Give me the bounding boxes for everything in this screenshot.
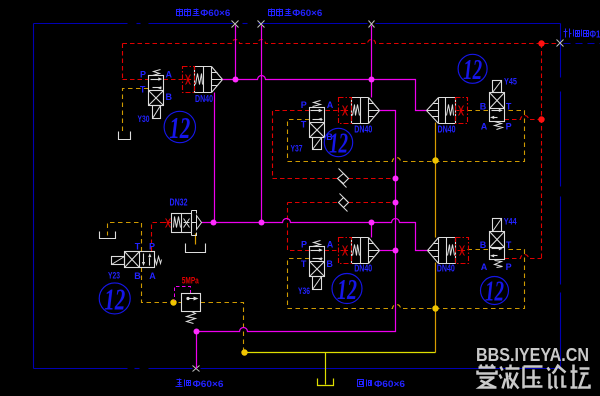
wire red pilot top horizontal: [123, 40, 557, 44]
svg-text:B: B: [166, 92, 173, 102]
svg-text:DN40: DN40: [354, 263, 372, 275]
wire relief valve remote pilot: [175, 287, 191, 301]
node main junction pilot CK2: [393, 200, 399, 206]
node main junction B2: [259, 220, 265, 226]
label oil inlet (jin you phi60x6): [177, 379, 182, 381]
callout circle 12 (Y23 group): [99, 283, 130, 314]
node main junction U4 out: [393, 248, 399, 254]
watermark ai ye ya lun tan: [479, 366, 496, 369]
svg-text:Y30: Y30: [138, 114, 150, 124]
svg-text:P: P: [301, 239, 307, 249]
valve Y37 body: [310, 108, 325, 138]
callout circle 12 (Y45 group): [458, 54, 487, 83]
wire drain Y23 B to relief valve: [142, 268, 182, 303]
relief valve RV1 spring: [187, 312, 196, 324]
wire red Y37 P branch: [273, 111, 310, 179]
svg-text:T: T: [506, 240, 512, 250]
node drain junction return corner: [241, 349, 247, 355]
tank symbol main return: [318, 379, 334, 386]
tank symbol DN32 drain: [186, 244, 206, 253]
svg-text:Φ60×6: Φ60×6: [292, 8, 322, 18]
svg-text:Y44: Y44: [504, 217, 518, 227]
cartridge valve U4 DN40 (center-bottom): [352, 237, 369, 239]
drawing frame top border: [34, 23, 128, 25]
wire red check valve CK1 line right: [349, 178, 397, 180]
wire main inlet riser: [196, 332, 198, 369]
node drain junction U5: [432, 305, 438, 311]
callout circle 12 (Y44 group): [481, 277, 509, 305]
wire red right column vertical: [541, 44, 543, 259]
wire main upper header: [223, 76, 427, 111]
node red junction Y45 P: [538, 116, 544, 122]
drill crossing mark X5 inlet: [193, 366, 200, 372]
drawing frame left border: [33, 24, 35, 369]
node main junction B1: [211, 220, 217, 226]
wire drain Y37 T loop to Y45 T: [288, 111, 525, 162]
wire red Y30 A to cartridge U1 pilot: [164, 79, 183, 81]
wire main middle header: [202, 219, 428, 251]
svg-text:A: A: [481, 122, 488, 132]
svg-text:B: B: [326, 259, 333, 269]
wire red check valve CK2 line right: [349, 202, 397, 204]
wire drain cartridge U5 pilot to Y44 B: [468, 249, 490, 251]
wire red pilot drop to Y30 P: [122, 44, 124, 80]
wire main vertical from X1: [235, 26, 237, 80]
node main junction inlet corner: [194, 329, 200, 335]
wire red check valve CK2 line left: [288, 202, 339, 204]
svg-text:BBS.IYEYA.CN: BBS.IYEYA.CN: [476, 345, 589, 365]
node main junction A2: [369, 77, 375, 83]
svg-text:12: 12: [463, 55, 482, 86]
svg-text:P: P: [506, 262, 512, 272]
node drain junction U3: [432, 157, 438, 163]
blue dashed stub beyond right border: [564, 43, 600, 45]
tank symbol Y30 drain: [119, 132, 131, 140]
svg-text:DN32: DN32: [170, 196, 188, 208]
valve Y44 body: [490, 232, 505, 260]
cartridge valve U2 DN40 (center-top): [352, 97, 369, 99]
svg-text:12: 12: [169, 110, 190, 145]
svg-text:Y37: Y37: [291, 144, 303, 154]
wire red Y36 A to cartridge U4 pilot: [325, 250, 339, 252]
wire red Y44 P line: [505, 255, 542, 259]
valve Y23 body: [125, 252, 155, 268]
drill crossing mark X3: [369, 21, 375, 28]
svg-text:5MPa: 5MPa: [182, 276, 200, 286]
wire main cartridge U4 out: [380, 250, 396, 252]
cartridge valve U1 DN40 (top-left): [195, 66, 212, 68]
wire red Y36 P branch: [288, 203, 310, 251]
wire main cartridge U2 out down to B header: [197, 111, 396, 332]
svg-text:Y23: Y23: [108, 271, 120, 281]
svg-text:B: B: [480, 101, 487, 111]
node main junction A1: [233, 77, 239, 83]
valve Y30 body: [149, 76, 164, 106]
callout circle 12 (Y37 group): [324, 128, 352, 156]
svg-text:T: T: [506, 101, 512, 111]
svg-text:Φ60×6: Φ60×6: [200, 8, 230, 18]
svg-text:12: 12: [329, 129, 348, 160]
wire drain relief valve to return: [201, 303, 244, 353]
wire main stub to cartridge U4 top: [371, 223, 373, 238]
check valve CK1: [338, 174, 349, 184]
callout circle 12 (Y30 group): [164, 111, 195, 142]
svg-text:12: 12: [104, 282, 125, 317]
tank symbol Y23 drain: [100, 232, 116, 239]
wire drain cartridge U3 pilot to Y45 B: [468, 110, 490, 112]
svg-text:T: T: [301, 259, 307, 269]
wire red Y37 A to cartridge U2 pilot: [326, 110, 340, 112]
cartridge valve U5 DN40 (bottom-right): [439, 237, 456, 239]
label oil return (hui you phi60x6): [358, 380, 364, 387]
wire orange DN32 drain stub: [195, 234, 197, 245]
wire red Y45 P line: [505, 116, 542, 120]
drawing frame bottom border: [34, 368, 128, 370]
callout circle 12 (Y36 group): [332, 274, 362, 304]
drawing frame right border: [560, 24, 562, 78]
wire red Y23 P up to DN32 pilot: [152, 223, 164, 252]
label drill passage 1 (chuan kong dao phi60x6): [177, 10, 183, 16]
svg-text:Φ1: Φ1: [590, 30, 600, 41]
svg-text:A: A: [327, 239, 334, 249]
wire yellow return line: [245, 352, 436, 354]
check valve CK2: [339, 198, 349, 208]
svg-text:A: A: [481, 262, 488, 272]
svg-text:Φ60×6: Φ60×6: [193, 379, 224, 389]
svg-text:P: P: [301, 100, 307, 110]
svg-text:T: T: [140, 84, 146, 94]
wire main cartridge U1 bottom: [214, 93, 216, 223]
svg-text:T: T: [301, 120, 307, 130]
svg-text:Φ60×6: Φ60×6: [374, 379, 405, 389]
svg-text:A: A: [149, 271, 156, 281]
svg-text:Y36: Y36: [298, 286, 310, 296]
svg-text:P: P: [506, 122, 512, 132]
svg-text:12: 12: [337, 274, 357, 306]
node main junction B3: [369, 220, 375, 226]
valve Y36 body: [310, 247, 325, 277]
node main junction pilot CK1: [393, 176, 399, 182]
valve Y45 body: [490, 93, 505, 122]
svg-text:12: 12: [485, 277, 504, 308]
wire yellow tank stub: [325, 353, 327, 385]
wire drain Y23 T to tank: [108, 223, 142, 252]
wire main vertical from X3 into cartridge U2: [371, 26, 373, 98]
svg-text:Y45: Y45: [504, 77, 517, 87]
svg-text:DN40: DN40: [195, 93, 213, 105]
drill crossing mark X4 right border: [557, 40, 564, 47]
drill crossing mark X2: [258, 21, 265, 28]
wire drain Y36 T loop to Y44 T: [288, 250, 525, 309]
svg-text:DN40: DN40: [437, 263, 455, 275]
label drill passage 2 (chuan kong dao phi60x6): [269, 10, 275, 16]
wire red check valve CK1 line left: [273, 178, 338, 180]
svg-text:DN40: DN40: [438, 124, 456, 136]
svg-text:P: P: [140, 69, 146, 79]
wire drain Y30 T to tank: [123, 89, 149, 135]
svg-text:T: T: [135, 242, 141, 252]
svg-text:B: B: [480, 240, 487, 250]
cartridge valve U3 DN40 (top-right): [439, 97, 456, 99]
label external control oil (wai kong you phi10x6): [565, 29, 567, 38]
svg-text:P: P: [149, 242, 155, 252]
svg-text:A: A: [327, 100, 334, 110]
wire main vertical from X2: [261, 26, 263, 223]
svg-text:A: A: [166, 69, 173, 79]
wire orange cartridge U3 bottom to U5 top: [435, 123, 437, 238]
node red junction top right: [538, 40, 544, 46]
cartridge valve U6 DN32: [172, 214, 192, 233]
drill crossing mark X1: [232, 21, 239, 28]
wire red Y30 P line: [123, 79, 149, 81]
relief valve RV1 body: [182, 294, 201, 312]
wire orange cartridge U5 bottom to return: [435, 263, 437, 353]
svg-text:DN40: DN40: [354, 124, 372, 136]
node drain junction relief inlet: [170, 299, 176, 305]
svg-text:B: B: [134, 271, 141, 281]
